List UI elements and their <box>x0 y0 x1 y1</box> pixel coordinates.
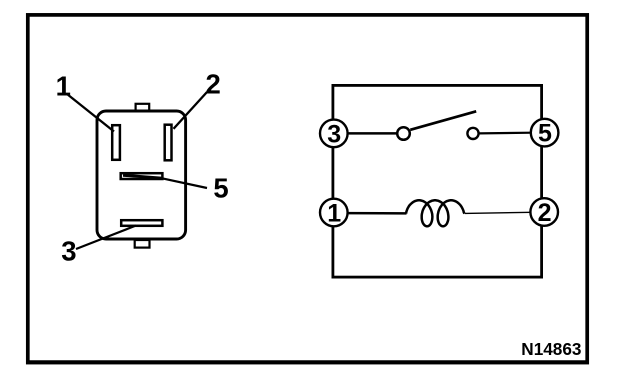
svg-text:2: 2 <box>205 69 220 100</box>
svg-text:3: 3 <box>327 120 341 148</box>
svg-text:1: 1 <box>327 199 341 227</box>
svg-text:N14863: N14863 <box>521 339 581 359</box>
svg-text:2: 2 <box>538 199 552 227</box>
svg-text:1: 1 <box>56 70 71 101</box>
svg-text:5: 5 <box>538 120 552 148</box>
svg-text:5: 5 <box>213 172 228 203</box>
svg-text:3: 3 <box>61 235 76 266</box>
